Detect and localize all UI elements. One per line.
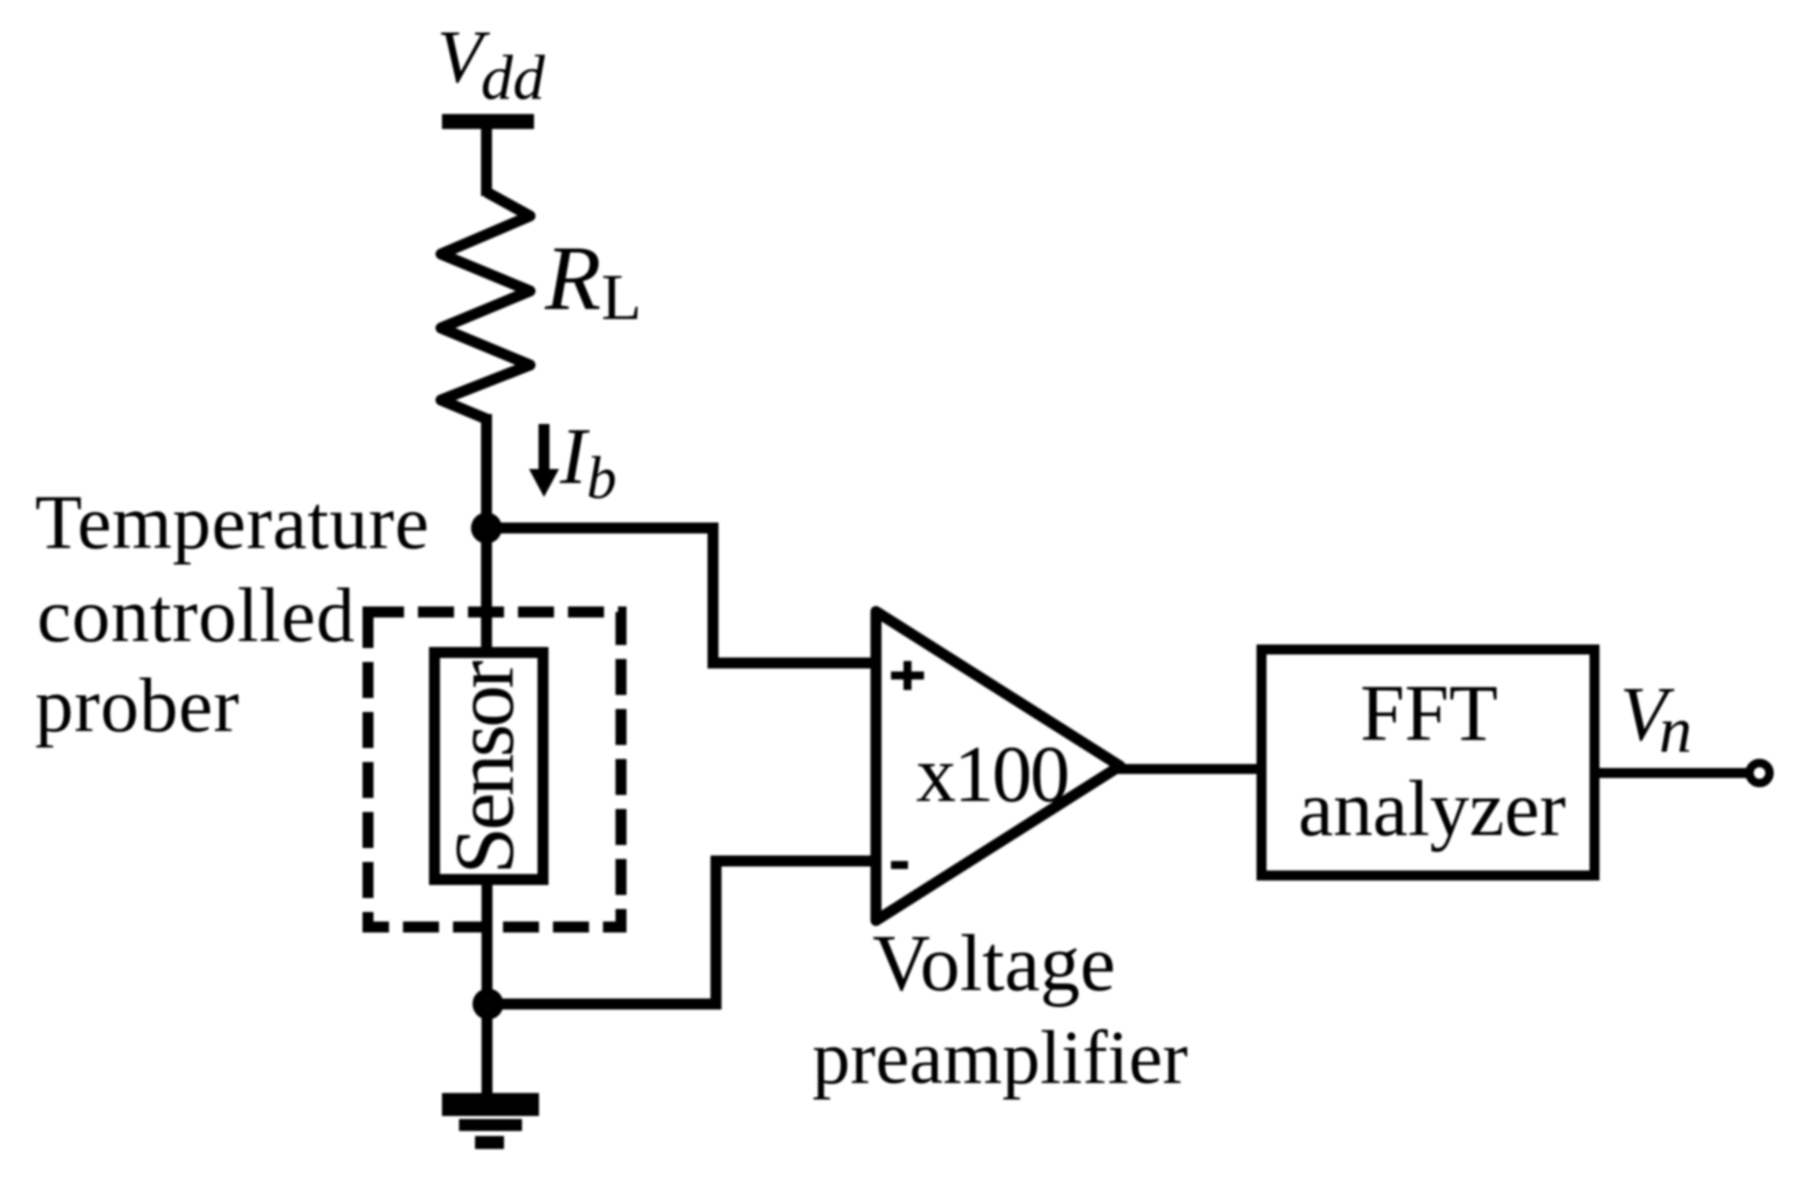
node A junction dot <box>471 513 502 544</box>
svg-text:x100: x100 <box>916 731 1068 819</box>
node B junction dot <box>473 989 504 1020</box>
svg-text:Voltage: Voltage <box>873 920 1116 1008</box>
op-amp U1 triangle <box>876 612 1120 921</box>
sensor box <box>435 653 544 880</box>
wire node A to op-amp + input <box>487 528 874 663</box>
op-amp + input marker <box>891 661 924 690</box>
svg-text:analyzer: analyzer <box>1298 766 1566 853</box>
wire resistor to node A <box>481 414 492 530</box>
wire sensor to node B <box>482 877 493 1004</box>
wire node B to ground <box>482 1004 493 1095</box>
wire Vdd bar to resistor <box>481 129 492 196</box>
svg-text:Sensor: Sensor <box>438 661 532 875</box>
ground symbol <box>442 1093 539 1116</box>
resistor RL zigzag <box>441 192 530 419</box>
wire FFT analyzer to output terminal <box>1596 768 1748 778</box>
wire node A into sensor <box>481 528 492 655</box>
wire node B to op-amp - input <box>488 861 873 1004</box>
dashed enclosure temperature controlled prober <box>368 612 621 927</box>
wire op-amp output to FFT analyzer <box>1115 764 1262 774</box>
op-amp - input marker <box>891 861 908 869</box>
FFT analyzer box <box>1262 650 1595 876</box>
svg-text:prober: prober <box>35 662 240 748</box>
output terminal Vn <box>1750 763 1770 783</box>
svg-text:preamplifier: preamplifier <box>812 1016 1188 1100</box>
current arrow Ib <box>539 424 550 472</box>
svg-text:controlled: controlled <box>37 572 355 658</box>
svg-text:Temperature: Temperature <box>35 479 430 565</box>
power rail Vdd bar <box>442 114 534 129</box>
svg-text:FFT: FFT <box>1360 670 1498 758</box>
